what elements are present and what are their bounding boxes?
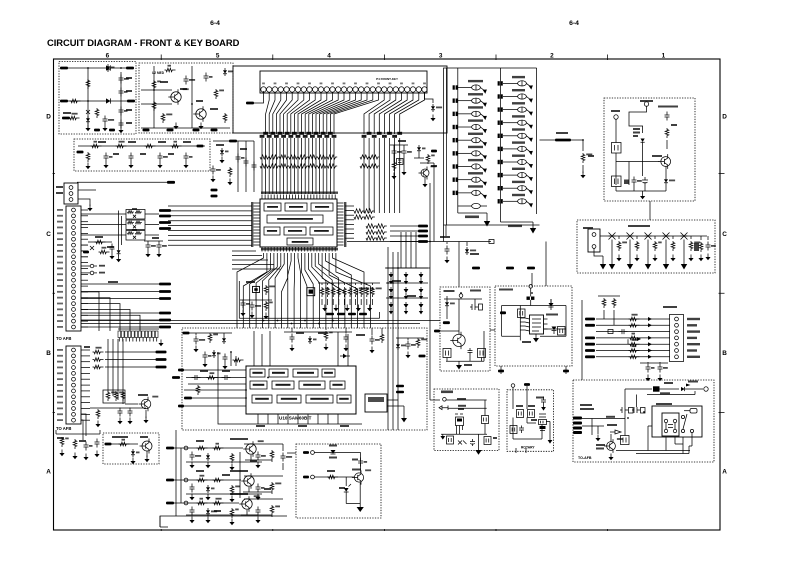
label (522, 341, 531, 343)
diode D13 (309, 336, 311, 338)
pin pin AFB-6 (72, 237, 76, 241)
pin pin AFB2-7 (72, 383, 76, 387)
wire cdg to eeprom (531, 273, 533, 286)
wire (665, 167, 667, 178)
ground (265, 313, 267, 317)
wire (243, 487, 272, 494)
key switch SW-FF (458, 166, 472, 168)
label AFB pin 5 (57, 232, 63, 234)
arrow key common L (486, 213, 488, 221)
ground (257, 517, 259, 521)
resistor R8 (152, 101, 156, 111)
wire (81, 221, 88, 223)
node net RC2 (348, 313, 356, 316)
arrow dpt1 (648, 323, 652, 327)
label K7 (512, 168, 525, 170)
resistor R11 (223, 113, 227, 123)
wire (484, 400, 486, 416)
node net EX1 (498, 370, 504, 373)
wire (257, 414, 259, 424)
wire (386, 297, 428, 299)
resistor R80 dpt (629, 317, 640, 321)
wire (387, 400, 404, 406)
ground (159, 162, 161, 166)
label TP ADC2 (687, 318, 700, 320)
wire (400, 232, 402, 268)
dashed block rotary encoder (507, 390, 554, 452)
label (196, 440, 204, 442)
bracket Rrot (510, 426, 517, 434)
IR module U5 (456, 417, 464, 426)
U1 block IO1 (264, 227, 280, 235)
diode D20 (223, 336, 225, 338)
wire (277, 414, 279, 424)
key switch CDG-K4 (663, 233, 670, 240)
U10 sub-block 306x395 (306, 395, 333, 403)
pin pin AFB2-3 (72, 360, 76, 364)
resistor R24 (86, 152, 90, 162)
svg-text:B: B (722, 350, 727, 357)
label (160, 81, 168, 83)
resistor R133 (337, 287, 341, 297)
cap bank C71 (620, 407, 628, 413)
ground (147, 251, 149, 255)
dashed block bias network (74, 139, 210, 171)
resistor R22 bias (145, 144, 156, 148)
dashed block B+ key power on (604, 98, 695, 201)
wire (78, 145, 205, 147)
arrow ALBUM- (480, 180, 485, 184)
label (671, 124, 677, 126)
ground (291, 345, 293, 349)
wire (425, 92, 434, 103)
wire (407, 338, 409, 340)
resistor R144 (196, 385, 200, 395)
node via (90, 264, 94, 268)
arrow led 22 (420, 308, 422, 311)
svg-text:TO AFB: TO AFB (56, 336, 71, 341)
label AFB pin 4 (57, 227, 63, 229)
wire (245, 141, 247, 192)
diode D21 (397, 342, 399, 344)
diode D10b (552, 327, 557, 331)
wire (345, 237, 354, 239)
wire b+ box to cdg (649, 201, 651, 220)
wire (642, 148, 644, 162)
U1 block IO3 (310, 227, 333, 235)
arrow gnd rot1 (543, 406, 545, 408)
resistor R64 cdg (689, 241, 693, 251)
ground (191, 494, 193, 498)
arrow gnd ir (442, 434, 444, 436)
capacitor C37 (128, 408, 133, 417)
resistor R151b (213, 478, 224, 482)
wire bus U1 to U10 fan (237, 253, 370, 328)
capacitor C21 (632, 177, 637, 186)
wire (195, 333, 197, 335)
label (256, 425, 265, 427)
wire (81, 250, 88, 252)
diode D202 (420, 272, 422, 274)
wire (345, 492, 347, 504)
wire (78, 189, 96, 191)
wire (582, 165, 584, 173)
U10 sub-block 252x395 (252, 395, 272, 403)
label AFB pin 18 (57, 308, 63, 310)
node net L8 (159, 319, 171, 322)
label (329, 457, 337, 459)
diode D4 (87, 116, 89, 118)
label K8 (512, 181, 525, 183)
label (327, 470, 335, 472)
node net L0 (159, 209, 171, 212)
label (633, 128, 640, 130)
svg-text:3: 3 (439, 53, 443, 60)
bracket C67 (447, 436, 454, 444)
wire (448, 407, 487, 409)
transistor Q12 (607, 442, 616, 451)
node net M1 (156, 358, 167, 361)
key contact chips MCL/RECESS (453, 85, 455, 89)
ground (700, 255, 702, 259)
bracket resistor R54 (612, 176, 622, 187)
pin pin DPT6 (675, 349, 679, 353)
wire (481, 358, 483, 362)
pin pin DPT1 (675, 317, 679, 321)
resistor R140 (207, 376, 218, 380)
label (458, 408, 464, 410)
label (99, 272, 105, 274)
wire (659, 362, 661, 363)
wire (168, 215, 252, 217)
label (126, 77, 132, 79)
key contact chips ALBUM- (453, 177, 455, 181)
dashed block relay / to-afb (573, 380, 714, 462)
arrow key common R (532, 222, 534, 228)
label AFB2 pin 9 (57, 396, 63, 398)
wire (68, 67, 103, 69)
wire (397, 338, 399, 342)
pin pin amp0 (184, 446, 188, 450)
capacitor C10 bias (104, 153, 109, 162)
capacitor C46 (192, 375, 201, 380)
resistor R115 (228, 167, 232, 177)
label (431, 165, 437, 167)
label (398, 140, 406, 142)
resistor R50 (581, 153, 585, 163)
diode D30 (641, 139, 645, 143)
wire P4 pin1 (254, 91, 264, 103)
ground (647, 375, 649, 379)
diode D16 (345, 477, 347, 486)
wire (267, 414, 269, 424)
U10 sub-block 322x369 (322, 369, 335, 377)
label AFB2 pin 13 (57, 419, 63, 421)
key contact chips K2 (498, 107, 500, 111)
pin pin AFB-19 (72, 313, 76, 317)
key switch SW-K6 (503, 161, 518, 163)
capacitor C60a (190, 452, 195, 461)
arrow K9 (526, 201, 531, 205)
wire (393, 145, 395, 148)
resistor R20 bias (91, 144, 102, 148)
label TP elim (687, 356, 700, 358)
wire vbus 1 (112, 339, 114, 396)
label (264, 488, 271, 490)
ground (158, 251, 160, 255)
svg-text:D: D (722, 113, 727, 120)
transistor Q8 (142, 441, 152, 451)
node net REVERSE (585, 324, 595, 327)
wire (629, 240, 631, 255)
resistor network SIL RN1 (118, 331, 158, 338)
wire (343, 299, 345, 305)
wire matrix bottom commons (444, 224, 540, 226)
wire amp row rails (186, 462, 262, 515)
wire (81, 308, 88, 310)
ground (324, 305, 326, 309)
capacitor C12 bias (158, 153, 163, 162)
label AFB pin 7 (57, 244, 63, 246)
label SLED SERVO (230, 493, 248, 495)
capacitor C80 (665, 112, 670, 121)
wire (446, 358, 448, 362)
wire amp vertical link (181, 448, 240, 503)
label TP-OUT (580, 404, 592, 406)
diode D210 (390, 287, 392, 289)
arrow SDC/REPEAT (480, 101, 485, 105)
node net RB3 (418, 240, 428, 243)
ground (345, 345, 347, 349)
node net RC3 (359, 313, 367, 316)
ground (129, 418, 131, 422)
ground (403, 169, 405, 173)
wire (582, 418, 625, 420)
ground (229, 179, 231, 183)
wire (81, 256, 88, 258)
label K3 (512, 115, 525, 117)
resistor R150d (270, 450, 274, 460)
wire key common L (458, 212, 487, 214)
wire (81, 209, 88, 211)
U1 bottom pin comb (262, 247, 335, 252)
node net M0 (156, 351, 167, 354)
capacitor C47 (222, 375, 231, 380)
wire (345, 214, 354, 216)
label STOP (468, 133, 483, 135)
wire reset col (458, 242, 460, 288)
node net S1 (396, 385, 404, 388)
transistor Q6 mark (90, 246, 94, 250)
label FM SERVO (230, 438, 248, 440)
label AFB pin 21 (57, 326, 63, 328)
label KB-05 (640, 100, 653, 102)
wire (360, 283, 362, 285)
wire (501, 306, 503, 337)
capacitor C41 (244, 158, 249, 167)
svg-text:ROTARY: ROTARY (521, 446, 535, 450)
wire (287, 414, 289, 424)
resistor R9 (161, 113, 165, 123)
relay coil bars (666, 423, 675, 429)
node via 2 (90, 271, 94, 275)
U10 sub-block 330x381 (330, 381, 345, 389)
pin pin AFB-8 (72, 249, 76, 253)
label AFB2 pin 4 (57, 367, 63, 369)
label GND D (687, 337, 697, 339)
resistor R180 (392, 161, 396, 171)
pin pin RY1-2 (664, 429, 667, 432)
ground (642, 193, 644, 197)
node net U10-D (178, 405, 184, 408)
wire left bus (519, 306, 521, 341)
resistor R95 (95, 240, 106, 244)
diode D19 (681, 387, 685, 391)
pin pin D1 (311, 451, 315, 455)
ground (207, 462, 209, 466)
key switch SW-K9 (503, 200, 518, 202)
ground (120, 127, 122, 131)
ground arrow cdg 1 (629, 254, 631, 264)
wire (654, 236, 656, 239)
wire collector (360, 453, 362, 474)
wire reset-eeprom gap (490, 329, 495, 331)
wire (424, 177, 426, 181)
wire (466, 242, 468, 246)
node net IN-R (127, 100, 135, 103)
wire (666, 140, 668, 149)
svg-text:4: 4 (327, 53, 331, 60)
wire ac-det (647, 394, 695, 396)
ground arrow cdg 3 (665, 254, 667, 264)
capacitor C39 (95, 439, 100, 448)
label (250, 460, 257, 462)
pin pin AFB2-13 (72, 418, 76, 422)
ground (191, 462, 193, 466)
label (98, 141, 106, 143)
label FF (468, 159, 483, 161)
node net RT2 (524, 383, 530, 386)
resistor R130 (320, 287, 324, 297)
pin pin AFB-14 (72, 284, 76, 288)
key contact chips K7 (498, 173, 500, 177)
capacitor C44 (241, 300, 246, 309)
wire (245, 455, 272, 462)
capacitor C5 (119, 120, 124, 129)
resistor array RB1 (360, 155, 380, 159)
wire fan 2 (81, 304, 120, 331)
wire long pair (81, 321, 427, 324)
wire (366, 283, 368, 285)
wire (282, 444, 284, 451)
wire (81, 367, 90, 369)
label TRT SERVO (230, 470, 248, 472)
pin pin AFB-16 (72, 296, 76, 300)
wire (474, 299, 476, 304)
key contact chips K1 (498, 94, 500, 98)
wire (145, 410, 147, 418)
resistor R65 (699, 242, 703, 252)
U1 pin blocks left (251, 202, 253, 247)
pin pin AFB-17 (72, 302, 76, 306)
pin pin RY-C1 (681, 415, 684, 418)
arrow ALBUM+ (480, 193, 485, 197)
capacitor C62b (256, 507, 261, 516)
U3 pins right (544, 319, 548, 329)
diode D211 (405, 287, 407, 289)
ground (690, 255, 692, 259)
label (152, 237, 159, 239)
svg-text:6-4: 6-4 (210, 20, 220, 27)
wire (87, 68, 89, 128)
label AFB pin 1 (57, 209, 63, 211)
label AFB2 pin 6 (57, 378, 63, 380)
label ACC (611, 110, 620, 112)
cap C68p (470, 439, 475, 446)
resistor R152c (230, 508, 234, 518)
wire amp bottom feed (160, 516, 168, 527)
arrow PAUSE/PLAY (480, 127, 485, 130)
node net K1 (431, 150, 437, 153)
label (183, 141, 191, 143)
front-key harness outline (233, 66, 447, 133)
wire (314, 452, 360, 454)
wire (325, 329, 327, 330)
resistor R132 (331, 287, 335, 297)
transistor Q1 (86, 110, 90, 114)
resistor R136 (354, 287, 358, 297)
pin pin AFB-9 (72, 255, 76, 259)
capacitor C36 (118, 408, 123, 417)
key switch SW-K1 (503, 96, 518, 98)
U11 fill (368, 397, 384, 402)
U10 sub-block 250x369 (250, 369, 265, 377)
ground arrow cdg 4 (683, 254, 685, 264)
capacitor C31 (646, 364, 651, 373)
wire (321, 299, 323, 305)
capacitor C68 (541, 397, 546, 406)
cap Crot (519, 426, 524, 434)
wire (81, 413, 90, 415)
node net L7 (159, 312, 171, 315)
wire (125, 403, 138, 405)
capacitor C60b (256, 452, 261, 461)
capacitor C32 (658, 364, 663, 373)
IC U3 eeprom (530, 315, 544, 334)
label (180, 88, 187, 90)
arrow MCL/RECESS (480, 88, 485, 92)
wire (191, 66, 193, 128)
wire amp to door box (287, 452, 296, 454)
ground (87, 163, 89, 167)
ground (618, 255, 620, 259)
wire (90, 407, 146, 409)
pin pin KB (644, 102, 648, 106)
wire (168, 210, 252, 212)
key contact chips ERA/CHECK (453, 112, 455, 116)
wire fan 3 (81, 309, 130, 331)
resistor array RA4 row1 (366, 230, 387, 234)
arrow led 20 (390, 308, 392, 311)
node net GND-A (62, 117, 70, 120)
pin pin CDG1 (592, 233, 596, 237)
wire (184, 405, 246, 407)
resistor R142 (380, 333, 384, 343)
connector CN-A3 (64, 183, 78, 204)
capacitor C65 (281, 453, 286, 462)
node net FL-VCC (167, 181, 175, 184)
wire (188, 383, 246, 385)
